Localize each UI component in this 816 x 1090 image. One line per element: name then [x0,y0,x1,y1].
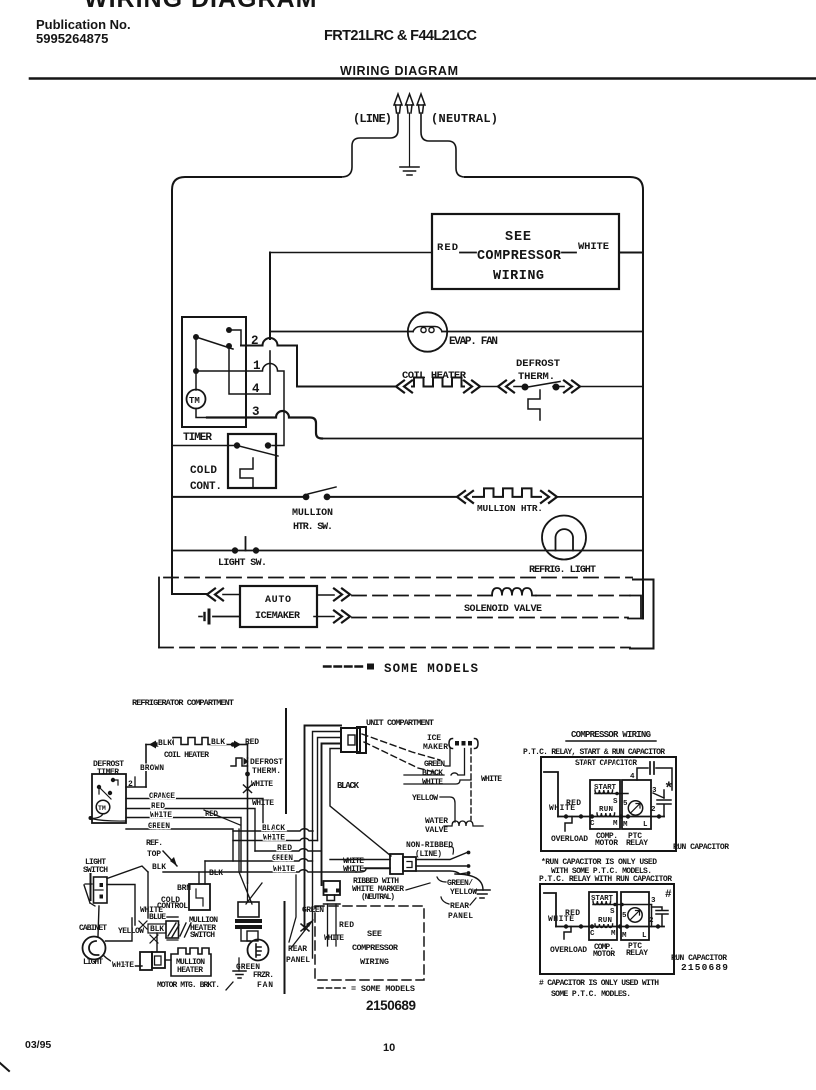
svg-text:BRN: BRN [177,884,191,893]
svg-text:CONT.: CONT. [190,481,222,493]
svg-text:5: 5 [623,800,628,808]
mullion heater element [473,488,541,497]
svg-text:BLK: BLK [211,738,225,747]
diagram 2 comp motor box [589,892,617,940]
black wire to cord [330,749,391,857]
svg-text:MOTOR MTG. BRKT.: MOTOR MTG. BRKT. [157,981,220,990]
svg-text:BLK: BLK [158,739,172,748]
diagram 1 outer box [541,757,676,851]
svg-text:EVAP. FAN: EVAP. FAN [449,336,498,348]
arrow left icemaker [207,589,223,601]
svg-text:GREEN: GREEN [272,854,293,863]
mullion heater element box [171,948,211,976]
svg-text:BROWN: BROWN [140,764,164,773]
svg-text:LIGHT SW.: LIGHT SW. [218,558,267,569]
svg-text:DEFROST: DEFROST [250,758,283,767]
coil heater row left [297,386,396,388]
svg-text:FRT21LRC & F44L21CC: FRT21LRC & F44L21CC [324,28,478,44]
arrow left mullion htr [457,491,473,503]
svg-text:PANEL: PANEL [286,956,310,965]
wire evap fan row [270,331,643,333]
svg-text:= SOME MODELS: = SOME MODELS [351,984,415,994]
svg-text:RED: RED [151,802,165,811]
svg-text:REFRIG. LIGHT: REFRIG. LIGHT [529,565,596,576]
svg-text:COMPRESSOR: COMPRESSOR [477,249,562,264]
wire white row to right rail [619,252,643,254]
icemaker plug symbol [213,616,240,618]
diagram 2 outer box [540,884,674,974]
defrost thermostat contacts [522,384,529,391]
mullion heater switch row [172,496,457,498]
timer output wire green [126,829,233,861]
svg-text:REF.: REF. [146,839,163,848]
compressor connector [324,881,341,895]
wire defrost therm to right rail [580,386,643,388]
wire ground prong down [409,113,411,166]
svg-text:WATER: WATER [425,817,448,826]
svg-text:WIRING DIAGRAM: WIRING DIAGRAM [84,0,317,13]
compartment divider upper [285,709,287,813]
svg-text:WHITE: WHITE [150,811,172,820]
diagram 1 start capacitor symbol [637,768,648,780]
icemaker feed from left rail [172,593,207,595]
svg-text:YELLOW: YELLOW [412,794,438,803]
defrost therm column [247,758,249,883]
svg-text:10: 10 [383,1042,395,1054]
icemaker out arrow bottom [314,616,334,618]
wire left rail to cold control [172,445,237,447]
svg-text:MOTOR: MOTOR [593,950,615,959]
arrow left defrost therm [498,381,514,393]
svg-text:GREEN: GREEN [424,760,445,769]
svg-text:C: C [590,820,595,828]
svg-text:(NEUTRAL): (NEUTRAL) [431,112,498,126]
cold control bottom [189,884,210,910]
timer internal contacts [226,327,232,333]
svg-text:S: S [613,798,618,806]
svg-text:BLACK: BLACK [337,781,360,791]
corner scan mark [0,1063,9,1071]
svg-text:RED: RED [565,909,580,918]
svg-text:S: S [610,908,615,916]
diagram 2 bottom bus [556,926,664,928]
timer output wire white [126,818,241,873]
svg-text:MULLION HTR.: MULLION HTR. [477,503,543,514]
cabinet light wires [103,955,142,966]
svg-text:P.T.C. RELAY, START & RUN CAPA: P.T.C. RELAY, START & RUN CAPACITOR [523,748,665,757]
ice maker stub wires [445,749,450,767]
svg-text:SEE: SEE [367,929,382,939]
ground freezer fan [233,971,246,978]
timer output wire orange [126,799,263,832]
wire timer terminal 3 thick row [207,411,322,438]
svg-text:M: M [622,932,627,940]
some models box right bracket [630,580,654,649]
cord wires right with ends [416,853,467,875]
arrow right mullion htr [541,491,557,503]
solenoid valve coil [492,588,536,596]
wire timer terminal 2 to coil heater row [241,338,297,386]
main enclosure outline left/top [172,177,341,594]
svg-text:MULLION: MULLION [292,508,333,519]
freezer fan assembly [239,829,262,904]
svg-text:SWITCH: SWITCH [190,931,215,940]
svg-text:WHITE: WHITE [578,241,609,253]
timer motor TM [187,390,206,409]
wire bundle row green [205,859,313,861]
light switch wires [107,866,148,879]
mullion heater switch bottom [166,921,179,938]
svg-text:WHITE: WHITE [112,961,134,970]
svg-text:BLACK: BLACK [422,769,443,778]
wire timer terminal 4 [229,349,270,394]
svg-text:L: L [643,821,648,829]
legend equals [367,664,374,670]
svg-text:WHITE: WHITE [273,865,295,874]
wire mullion heater to right rail [557,496,643,498]
diagram 1 ptc relay box [622,780,651,829]
ground symbol [400,167,419,175]
svg-text:(NEUTRAL): (NEUTRAL) [361,893,395,902]
wire to defrost therm [480,386,498,388]
svg-text:TM: TM [98,805,106,812]
svg-text:M: M [611,930,616,938]
coil heater element bottom [146,744,173,746]
wire vertical feed from red row to timer [269,253,271,340]
svg-text:RED: RED [437,242,458,254]
svg-text:REAR: REAR [288,945,307,954]
arrow left coil heater [396,381,412,393]
svg-text:OVERLOAD: OVERLOAD [550,946,587,955]
legend some models bottom [318,987,345,989]
svg-text:Publication No.: Publication No. [36,17,131,32]
svg-text:SOLENOID VALVE: SOLENOID VALVE [464,604,542,615]
some models dashed box bottom [159,647,630,649]
svg-text:4: 4 [630,773,635,781]
diagram 1 bottom bus [558,816,664,818]
svg-text:BLK: BLK [152,863,166,872]
diagram 1 run capacitor symbol [653,793,664,798]
svg-text:P.T.C. RELAY WITH RUN CAPACITO: P.T.C. RELAY WITH RUN CAPACITOR [539,875,672,884]
svg-text:WHITE: WHITE [481,775,502,784]
svg-text:SOME MODELS: SOME MODELS [384,662,478,676]
coil heater element [412,378,464,387]
svg-text:(LINE): (LINE) [415,850,442,859]
diagram 2 run capacitor symbol [651,905,653,927]
svg-text:CABINET: CABINET [79,924,107,933]
svg-text:HEATER: HEATER [177,966,203,975]
svg-text:*RUN CAPACITOR IS ONLY USED: *RUN CAPACITOR IS ONLY USED [541,858,657,867]
wire bundle row red [255,849,322,851]
svg-text:2150689: 2150689 [681,962,728,973]
arrow right coil heater [464,381,480,393]
svg-text:M: M [613,820,618,828]
wire bundle row white2 [233,838,318,840]
svg-text:FAN: FAN [257,981,273,990]
svg-text:UNIT COMPARTMENT: UNIT COMPARTMENT [366,718,434,728]
diagram 2 ptc relay box [621,892,649,940]
arrow right defrost therm [564,381,580,393]
defrost timer box [92,774,126,823]
coil heater wire bottom [126,786,146,788]
wire line prong to box top [341,113,398,177]
svg-text:BLUE: BLUE [149,913,166,922]
legend dashes [324,665,364,667]
dashed wire solenoid to bracket [536,595,630,597]
mullion heater connector [140,952,152,970]
svg-text:RUN: RUN [599,806,613,814]
svg-text:WHITE: WHITE [422,778,443,787]
svg-text:OVERLOAD: OVERLOAD [551,835,588,844]
svg-text:C: C [590,930,595,938]
svg-text:FRZR.: FRZR. [253,971,274,980]
svg-text:WHITE: WHITE [263,834,285,843]
svg-text:THERM.: THERM. [518,371,555,383]
power cord connector [390,854,403,874]
svg-text:2150689: 2150689 [366,998,416,1013]
wire bundle row white5 [163,870,356,872]
diagram 1 overload [565,817,572,832]
some models dashed box top [164,577,632,579]
timer box [182,317,246,427]
svg-text:WIRING: WIRING [493,269,544,284]
wire bundle row black [233,829,313,831]
svg-text:GREEN: GREEN [148,822,170,831]
svg-text:WIRING DIAGRAM: WIRING DIAGRAM [340,64,458,78]
svg-text:COIL HEATER: COIL HEATER [164,751,209,760]
svg-text:BLK: BLK [209,869,223,878]
wire row3 to right rail [322,438,643,440]
icemaker out arrow top [317,594,334,596]
svg-text:L: L [642,932,647,940]
timer output wire red [126,809,255,852]
svg-text:COMPRESSOR: COMPRESSOR [352,943,399,953]
freezer fan motor [248,940,269,961]
svg-text:TOP: TOP [147,850,161,859]
plug prong LINE [394,94,402,105]
some models dashed box left [158,578,160,648]
svg-text:5: 5 [622,912,627,920]
svg-text:NON-RIBBED: NON-RIBBED [406,841,453,850]
svg-text:3: 3 [651,897,656,905]
svg-text:GREEN: GREEN [302,906,324,915]
ground cord [475,890,490,898]
svg-text:THERM.: THERM. [252,767,281,776]
svg-text:WIRING: WIRING [360,957,389,967]
svg-text:# CAPACITOR IS ONLY USED WITH: # CAPACITOR IS ONLY USED WITH [539,979,659,988]
svg-text:TM: TM [189,396,200,406]
compartment divider lower [284,902,286,993]
svg-text:ICE: ICE [427,734,441,743]
main enclosure outline top/right [465,177,643,619]
svg-text:GREEN/: GREEN/ [447,879,473,888]
header rule [30,77,816,80]
svg-text:SOME P.T.C. MODLES.: SOME P.T.C. MODLES. [551,990,631,999]
svg-text:PANEL: PANEL [448,912,473,921]
svg-text:BLACK: BLACK [262,824,285,833]
svg-text:MOTOR: MOTOR [595,839,618,848]
svg-text:RELAY: RELAY [626,839,648,848]
svg-text:RED: RED [277,844,292,853]
svg-text:5995264875: 5995264875 [36,31,108,46]
cord wires to plug [364,860,390,869]
svg-text:RUN CAPACITOR: RUN CAPACITOR [673,843,729,852]
wire neutral prong to box top [421,113,465,177]
svg-text:ICEMAKER: ICEMAKER [255,611,300,622]
ice maker plug [449,739,478,749]
svg-text:RED: RED [339,921,354,930]
defrost timer contacts [111,778,115,782]
svg-text:SEE: SEE [505,230,531,245]
evap fan motor [408,312,447,351]
wire timer terminal 1 hop [196,364,284,446]
svg-text:MAKER: MAKER [423,743,448,752]
svg-text:VALVE: VALVE [425,826,448,835]
plug prong GROUND [406,94,414,105]
auto icemaker box [240,586,317,627]
dashed wire icemaker return [352,617,628,619]
defrost thermostat bottom [247,744,249,758]
svg-text:HTR. SW.: HTR. SW. [293,522,333,533]
refrigerator light bulb [542,516,586,560]
svg-text:TIMER: TIMER [183,432,212,444]
cold control box [228,434,276,488]
svg-text:M: M [623,821,628,829]
svg-text:AUTO: AUTO [265,595,291,606]
defrost timer motor TM [96,800,110,814]
svg-text:TIMER: TIMER [97,768,119,777]
dashed wires connector to ice maker [362,734,440,760]
svg-text:RELAY: RELAY [626,949,648,958]
light switch row [172,550,643,552]
svg-text:COIL HEATER: COIL HEATER [402,370,467,382]
svg-text:YELLOW: YELLOW [450,888,477,897]
svg-text:DEFROST: DEFROST [516,358,560,370]
svg-text:LIGHT: LIGHT [83,958,103,967]
svg-text:RED: RED [566,799,581,808]
compressor dashed box [315,906,424,980]
bundle corner wires from connector [305,726,342,931]
svg-text:COLD: COLD [190,465,217,477]
svg-text:RUN: RUN [598,917,612,925]
svg-text:ORANGE: ORANGE [149,792,175,801]
svg-text:2: 2 [651,806,656,814]
svg-text:REFRIGERATOR COMPARTMENT: REFRIGERATOR COMPARTMENT [132,698,234,708]
svg-text:WHITE: WHITE [251,780,273,789]
svg-text:#: # [665,889,672,901]
wire stubs inside compressor box [460,252,576,254]
svg-text:SWITCH: SWITCH [83,866,108,875]
box SEE COMPRESSOR WIRING [432,214,619,289]
cold control thermostat element [240,458,253,487]
unit compartment connector [341,728,360,752]
svg-text:(LINE): (LINE) [353,112,392,126]
plug prong NEUTRAL [417,94,425,105]
wire red row [270,252,432,254]
svg-text:*: * [664,780,674,798]
svg-text:REAR: REAR [450,902,469,911]
dashed wire icemaker to solenoid [352,595,492,597]
svg-text:03/95: 03/95 [25,1039,51,1051]
svg-text:COMPRESSOR WIRING: COMPRESSOR WIRING [571,730,651,740]
diagram 1 comp motor box [590,780,620,829]
svg-text:START CAPACITOR: START CAPACITOR [575,759,637,768]
diagram 2 overload [564,927,571,940]
cold control contacts [234,442,240,448]
